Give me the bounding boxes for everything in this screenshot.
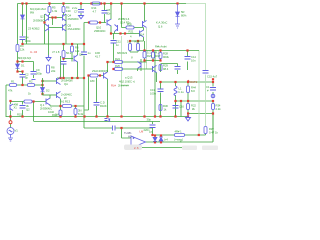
resistor R28 [159,53,162,59]
junction (72,44) [71,43,73,45]
junction (78,78) [76,77,78,79]
wire diode col D3 [154,135,156,137]
wire pale x205.5 lower [205,75,207,127]
diode D2 [41,88,45,92]
svg-text:98.4: 98.4 [163,67,169,71]
resistor R35 [175,134,185,137]
junction (161,136) [160,134,162,136]
transistor Q5 [107,19,111,26]
wire input row y101.5 [11,101,46,103]
svg-text:QA: QA [64,82,68,86]
wire row y33.5 [111,33,140,35]
junction (72,78) [71,77,73,79]
svg-text:5.1: 5.1 [147,51,151,55]
svg-text:R14: R14 [92,6,97,10]
capacitor C9 [31,72,37,75]
svg-text:4.1: 4.1 [156,51,160,55]
junction (52,18) [51,16,53,18]
svg-text:C.D: C.D [100,101,105,105]
op-amp U1 [131,136,146,148]
junction (152,135) [151,134,153,136]
svg-text:22n: 22n [107,12,112,16]
wire C4 branch top [22,4,24,16]
junction (22,72) [21,70,23,72]
wire row y113.5 [188,113,213,115]
resistor R34 [212,104,215,110]
junction (130,41) [129,40,131,42]
svg-text:C15 4u7: C15 4u7 [207,75,218,79]
wire ground rail bottom [127,147,190,149]
svg-text:Q10: Q10 [96,26,102,30]
svg-text:5p: 5p [25,76,28,80]
svg-text:R#k Ardei: R#k Ardei [155,45,167,49]
resistor R2 [28,84,35,87]
svg-text:C14: C14 [191,55,196,59]
svg-text:2SA1306C: 2SA1306C [68,27,81,31]
wire x121.5 column low pale [121,36,123,117]
svg-text:4.7: 4.7 [93,10,97,14]
svg-text:R26: R26 [115,64,120,68]
svg-text:R29: R29 [163,64,168,68]
junction (60,116) [59,115,61,117]
junction (18,72) [16,70,18,72]
svg-text:41.7: 41.7 [95,55,101,59]
svg-text:100n: 100n [25,39,31,43]
svg-text:1.3k: 1.3k [52,9,58,13]
junction (138,41) [137,40,139,42]
resistor R5 [48,7,51,13]
top-right dot red [212,78,214,80]
junction (84,116) [83,115,85,117]
wire left column V+ [17,4,19,45]
wire row y69 [114,68,147,70]
wire servo row y135 [153,128,206,135]
resistor R6 [62,7,65,13]
svg-text:b.1u: b.1u [179,90,185,94]
capacitor C8 [102,11,108,14]
svg-text:Q9: Q9 [105,69,109,73]
wire feedback row y128 [84,127,153,129]
diode D1 [16,64,20,68]
wire rail y116.5 [6,116,188,118]
wire C12 cap col [152,122,154,125]
svg-text:1u: 1u [88,51,91,55]
transistor Q3 base wire [43,94,57,96]
wire left column low [17,69,19,72]
wire x33.5 column [33,102,35,122]
svg-text:Q2: Q2 [40,15,44,19]
svg-text:4R# 1: 4R# 1 [175,130,183,134]
svg-text:903k: 903k [163,55,169,59]
junction (176,101) [174,100,176,102]
wire Q5 emitter [110,26,112,34]
wire L1 column [175,82,177,117]
capacitor C12 [150,125,156,128]
junction (18,62) [16,60,18,62]
wire R5 column [49,4,51,16]
junction (144,116) [143,115,145,117]
svg-text:12k: 12k [20,48,25,52]
svg-text:Q8: Q8 [79,53,83,57]
wire x187.5 column [187,51,189,71]
svg-text:C16: C16 [179,105,184,109]
wire row y106 [50,105,84,107]
junction (176,116) [174,115,176,117]
svg-text:47k: 47k [8,89,13,93]
svg-text:80%: 80% [181,14,187,18]
svg-text:2SB329C: 2SB329C [94,29,106,33]
ground C7 [79,16,84,19]
wire x52.5 link [52,18,54,26]
svg-text:R34: R34 [216,104,221,108]
wire C10 column [96,78,98,117]
transistor Q6 [143,21,147,28]
svg-text:A1 R13: A1 R13 [61,100,70,104]
resistor R37 [204,127,207,134]
wire cap col x177.5 [177,64,179,75]
wire x44.5 column [44,14,46,44]
svg-text:Q14: Q14 [139,33,145,37]
resistor R20 [126,26,134,29]
resistor R8 [62,51,65,58]
resistor R3 [24,100,32,103]
capacitor C4 [20,37,26,40]
junction (22,4) [21,2,23,4]
svg-text:C7: C7 [74,10,78,14]
junction (50,4) [48,2,50,4]
wire input col x22.5 [22,102,24,117]
junction (22,62) [21,60,23,62]
wire V1 column [10,117,12,128]
wire row y61.5 [18,61,34,63]
svg-text:12k: 12k [75,49,80,53]
svg-text:2+2646C: 2+2646C [61,93,72,97]
junction (34,102) [32,100,34,102]
resistor R9 [71,46,74,52]
capacitor C11 [111,41,117,44]
wire C13 column [160,82,162,117]
svg-text:8.4k: 8.4k [78,112,84,116]
junction (76,106) [74,105,76,107]
junction (26,4) [25,2,27,4]
wire x181 column [180,101,182,117]
svg-text:R24: R24 [135,40,140,44]
wire C4 branch mid [22,19,24,36]
junction (120,34) [119,32,121,34]
transistor Q2b [45,24,49,31]
wire mirror base row [49,17,63,19]
junction (56,18) [54,16,56,18]
junction (122,116) [120,115,122,117]
resistor R15 [59,110,62,116]
transistors [10,14,157,111]
svg-text:2N3906C: 2N3906C [68,17,79,21]
wire x88.5 column [85,76,89,111]
svg-text:Q2: Q2 [26,108,30,112]
junction (144,4) [143,2,145,4]
wire row y44 mid [83,43,85,45]
junction (44,22) [43,21,45,23]
capacitor C5 tail [81,52,87,55]
resistor R30 [159,105,162,111]
wire Q11 base stub [138,59,142,71]
wire x199 column pale [198,51,200,136]
wire x28.5 branch [26,4,28,45]
wire x6 input column [5,85,7,117]
junction (84,78) [83,77,85,79]
svg-text:23 4(36(2: 23 4(36(2 [28,27,40,31]
wire quad to ground [48,31,50,56]
junction (188,114) [187,112,189,114]
wire x75 column [75,106,77,117]
junction (181,101) [180,100,182,102]
capacitor C9 gnd dash [32,79,36,81]
junction (114,69) [112,68,114,70]
svg-text:C8: C8 [107,8,111,12]
wire opamp out row [146,114,214,143]
svg-text:130: 130 [66,9,71,13]
resistor R12 [90,74,98,77]
junction (81,4) [80,2,82,4]
svg-text:0.47 1k: 0.47 1k [209,131,218,135]
transistor Q2 [45,14,49,21]
svg-text:In..C6: In..C6 [30,50,38,54]
wire R1 R2 row y85 [6,84,43,86]
wire x188 column [187,82,189,115]
svg-text:R28: R28 [163,52,168,56]
ground arrow x49 [46,55,51,61]
junction (160,50) [159,49,161,51]
svg-text:8.#: 8.# [191,89,195,93]
junction (10,116) [9,115,11,117]
resistor R44 [187,86,190,93]
junction (160,60) [159,59,161,61]
wire row y44 left [23,43,85,45]
wire Q3b col x50 [49,95,51,106]
svg-text:Q5: Q5 [68,24,72,28]
transistor Q9 [104,72,108,79]
svg-text:2.2k: 2.2k [216,107,222,111]
resistor RA [129,44,132,51]
resistor R23b [143,52,146,59]
junction (188,82) [187,81,189,83]
svg-text:R22: R22 [191,104,196,108]
junction (122,4) [120,2,122,4]
junction (60,106) [59,105,61,107]
svg-text:R4: R4 [20,44,24,48]
wire Q7 base stub [147,68,153,70]
svg-text:6C(4)HC-8x2: 6C(4)HC-8x2 [30,7,46,11]
transistor Q1 base wire [43,80,57,82]
junction (178,4) [176,2,178,4]
svg-text:16R: 16R [95,51,100,55]
wire row y75.5 [89,75,104,77]
svg-text:200p: 200p [36,72,42,76]
wire opamp minus input [122,128,132,138]
wire x66.5 column [65,14,67,44]
resistor R7 [47,65,50,73]
junction (96,116) [95,115,97,117]
svg-text:J7 1.8: J7 1.8 [52,50,60,54]
wire Q7 column [156,73,158,83]
red texts [134,78,214,150]
wire rail y121.5 [34,121,160,123]
transistor Q11 [138,62,142,69]
capacitor C13 [158,89,164,92]
svg-text:Q4: Q4 [68,14,72,18]
grey blob under opamp [124,145,142,151]
capacitor C18 feedback [113,126,116,131]
transistor Q4b [63,24,67,31]
svg-text:Jn: Jn [111,131,114,135]
svg-text:V1: V1 [15,129,19,133]
wire x146.5 column [146,28,148,69]
junction (155,136) [154,134,156,136]
resistor R1 [10,84,17,87]
svg-text:22k: 22k [51,69,56,73]
junction (101,4) [100,2,102,4]
wire x213 servo column [212,101,214,142]
svg-text:56.2: 56.2 [66,51,72,55]
junction (155,116) [154,115,156,117]
wire bias col x144.5 [144,41,146,61]
wire Q8 base stub [64,58,74,60]
port diamond OUT1 [187,80,190,83]
wire row y78 [57,77,85,79]
junction (188,50) [186,49,188,51]
wire X1 column [10,102,12,117]
junction (108,116) [106,115,108,117]
junction (92,4) [90,2,92,4]
wire row y101 [176,100,214,102]
wire C9 column [33,62,35,79]
svg-text:2N3906C: 2N3906C [33,19,44,23]
wire R6 column [63,4,65,16]
wire C11 column [113,34,115,63]
transistor Q13 [115,25,118,32]
wire left column mid [17,52,19,65]
svg-text:R15: R15 [17,113,22,117]
junction (42,81) [41,80,43,82]
wire bias col x160.5 [160,51,162,73]
diode D5 zener top-right [177,4,179,24]
capacitor C14 [185,57,191,60]
svg-text:2N#####: 2N##### [118,84,129,88]
svg-text:10n: 10n [191,59,196,63]
wire row y71.5 [18,71,23,73]
junction (199,135) [198,134,200,136]
wire Q14 collector [143,28,145,31]
junction (22,44) [21,43,23,45]
junction (144,50) [143,49,145,51]
svg-text:Q.6: Q.6 [158,25,163,29]
resistor R10 [90,21,98,24]
ground C17 [211,94,215,98]
svg-text:5.1: 5.1 [127,40,131,44]
junction (125,34) [124,32,126,34]
switch X1 [10,104,13,111]
wire C4 branch bot [22,40,24,44]
junction (42,85) [41,84,43,86]
resistor R4 [16,45,19,52]
svg-text:R#7: R#7 [209,127,214,131]
wire x130 x138 bias resistors links [130,41,144,52]
wire q3 emitter col [60,99,62,117]
capacitor C2 [20,75,26,78]
svg-text:C9: C9 [36,68,40,72]
wire top rail [18,3,187,5]
svg-text:2..6: 2..6 [134,146,139,150]
svg-text:5R: 5R [181,10,184,14]
transistor Q3 [57,92,61,99]
resistor R29 [159,65,162,71]
wire x144 column [144,4,146,22]
junction (111,4) [110,2,112,4]
wire x144.5 column pale [144,61,146,117]
junction (10,101) [9,100,11,102]
capacitor C15 [203,71,209,74]
junction (122,128) [120,127,122,129]
junction (108,62) [106,61,108,63]
svg-text:180: 180 [90,79,95,83]
resistor R22 [187,104,190,110]
svg-text:R44: R44 [191,86,196,90]
svg-text:K.A.30xC: K.A.30xC [156,21,167,25]
transistor Q7 [153,66,157,73]
wire row y50.5 [138,50,181,52]
wire C7 column [80,4,82,16]
resistor R16 [74,109,77,115]
capacitor Cx177 [175,67,181,70]
junction (153,50) [152,49,154,51]
svg-text:C1.: C1. [206,85,210,89]
wire row y50.5 right [181,50,199,52]
junction (22,116) [21,115,23,117]
svg-text:C13: C13 [150,88,155,92]
junction (111,34) [110,32,112,34]
wire x60 column Q1 top [60,56,62,77]
capacitor C16 [173,106,179,109]
wire C8 column [104,4,106,23]
wire R37 col [205,134,207,136]
junction (76,116) [74,115,76,117]
wire output row y82 [161,81,214,83]
node rail y116.5 [187,115,189,117]
source V1 [7,128,14,142]
junction (155,142) [154,141,156,143]
junction (104,4) [103,2,105,4]
svg-text:C4: C4 [25,36,29,40]
wire D2 column [42,78,44,95]
wire Q9 upper col [107,62,109,72]
wire Q14 emitter [143,37,145,41]
junction (89,22) [88,21,90,23]
junction (114,62) [112,61,114,63]
transistor Q4 [63,14,67,21]
svg-text:D2: D2 [46,89,50,93]
wire q13 base stub [114,32,116,34]
resistor R26 [115,68,123,71]
svg-text:C11: C11 [116,40,121,44]
wire x63 R9 col [63,44,65,78]
wire diode col D4 [160,135,162,137]
junction (176,82) [174,81,176,83]
svg-text:R6: R6 [66,6,70,10]
wire opamp plus input [127,146,132,148]
junction (213,114) [212,112,214,114]
wire mirror base2 row [49,27,63,29]
junction (42,94) [41,93,43,95]
